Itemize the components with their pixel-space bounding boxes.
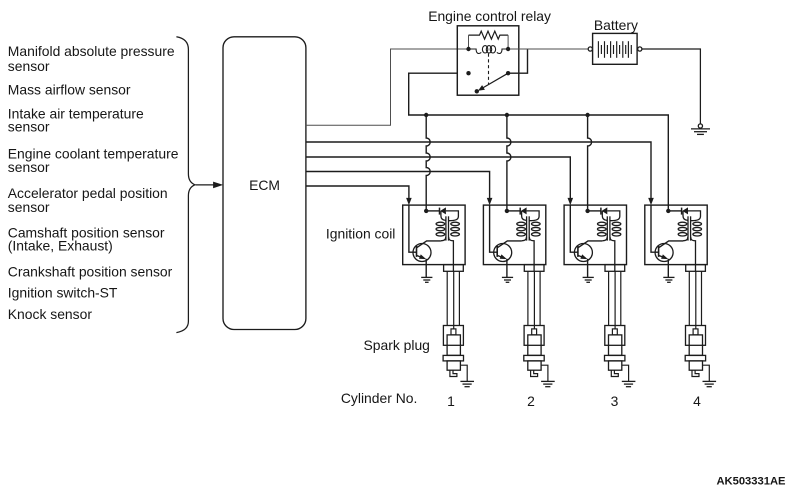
svg-text:Crankshaft position sensor: Crankshaft position sensor: [8, 264, 173, 280]
svg-text:4: 4: [693, 393, 701, 409]
svg-text:2: 2: [527, 393, 535, 409]
svg-text:Battery: Battery: [594, 17, 638, 33]
svg-text:Ignition coil: Ignition coil: [326, 226, 396, 242]
svg-text:Cylinder No.: Cylinder No.: [341, 390, 417, 406]
svg-text:3: 3: [611, 393, 619, 409]
svg-text:Ignition switch-ST: Ignition switch-ST: [8, 285, 118, 301]
svg-text:sensor: sensor: [8, 58, 50, 74]
svg-text:(Intake, Exhaust): (Intake, Exhaust): [8, 238, 113, 254]
svg-text:ECM: ECM: [249, 177, 280, 193]
svg-text:sensor: sensor: [8, 159, 50, 175]
svg-text:1: 1: [447, 393, 455, 409]
svg-text:Manifold absolute pressure: Manifold absolute pressure: [8, 43, 175, 59]
svg-text:sensor: sensor: [8, 119, 50, 135]
svg-text:Engine control relay: Engine control relay: [428, 8, 551, 24]
svg-text:Knock sensor: Knock sensor: [8, 306, 93, 322]
svg-text:Mass airflow sensor: Mass airflow sensor: [8, 82, 131, 98]
svg-text:AK503331AE: AK503331AE: [716, 475, 786, 487]
svg-text:Spark plug: Spark plug: [364, 337, 430, 353]
svg-text:sensor: sensor: [8, 199, 50, 215]
